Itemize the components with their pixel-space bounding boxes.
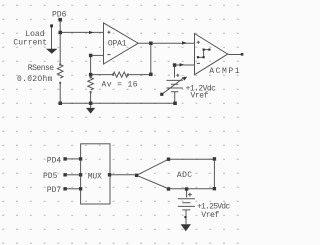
wire MUX output to ADC <box>110 174 137 176</box>
battery V2 +1.25Vdc <box>178 199 195 210</box>
pin PD5 at MUX <box>79 173 82 176</box>
svg-text:Vref: Vref <box>191 91 209 100</box>
ACMP1 plus sign <box>197 41 200 44</box>
variable source diagonal arrow line <box>162 77 185 94</box>
arrowhead diagonal variable arrow <box>182 77 187 81</box>
wire OPA1 output to ACMP1 <box>138 42 194 44</box>
svg-text:Current: Current <box>13 38 47 47</box>
svg-text:RSense: RSense <box>28 64 55 73</box>
junction inverting node <box>89 54 93 58</box>
svg-text:Vref: Vref <box>201 211 219 220</box>
wire Vref node to ACMP1 - input <box>175 64 195 66</box>
wire feedback to output <box>128 43 151 74</box>
OPA1 minus sign <box>107 54 110 56</box>
pin PD4 at MUX <box>79 157 82 160</box>
corner ADC top-right <box>213 157 216 160</box>
ADC pentagon <box>137 159 215 189</box>
svg-text:ACMP1: ACMP1 <box>209 67 241 76</box>
corner rail right <box>173 102 177 106</box>
svg-text:PD5: PD5 <box>43 172 58 181</box>
resistor R gain (Av) <box>88 77 94 90</box>
junction output node <box>149 42 153 46</box>
resistor R feedback <box>113 72 128 77</box>
OPA1 plus sign <box>107 31 110 34</box>
wire ADC to 1.25V battery <box>186 189 188 198</box>
wire ACMP1 output stub <box>228 53 242 55</box>
corner feedback right <box>149 73 153 77</box>
wire PD7 to MUX <box>65 188 81 190</box>
plus sign battery V1 <box>176 74 179 77</box>
resistor RSense <box>57 65 63 79</box>
junction node A (PD6/OPA1+) <box>59 31 63 35</box>
arrowhead on + input wire <box>89 31 94 34</box>
junction ADC Vref pin <box>185 187 188 190</box>
pin marks RSense <box>59 64 61 66</box>
wire battery to ground <box>185 210 187 224</box>
junction feedback left <box>89 73 93 77</box>
svg-text:MUX: MUX <box>88 172 102 181</box>
op-amp OPA1 <box>104 23 139 64</box>
ground stem top circuit <box>90 103 92 108</box>
MUX box <box>81 144 110 204</box>
plus sign battery V2 <box>188 193 192 197</box>
corner rail left <box>59 102 63 106</box>
svg-text:0.02Ohm: 0.02Ohm <box>17 75 53 84</box>
corner ADC bottom-right <box>213 187 216 190</box>
pin mark battery wire <box>184 216 186 218</box>
corner ADC bottom-left <box>167 187 170 190</box>
corner ADC top-left <box>167 158 170 161</box>
terminal PD4 <box>63 157 66 160</box>
pin marks R feedback <box>112 74 114 76</box>
terminal PD6 <box>58 18 62 22</box>
ground symbol bottom <box>181 224 191 231</box>
arrowhead on output wire <box>182 41 187 44</box>
wire OPA1 - input <box>91 54 104 56</box>
wire inverting node down <box>90 55 92 77</box>
arrowhead load current <box>46 49 57 54</box>
junction Vref node <box>173 63 177 67</box>
arrowhead on ACMP1 - wire <box>180 63 185 66</box>
ground symbol top circuit <box>86 108 95 114</box>
ACMP1 hysteresis glyph <box>198 50 209 58</box>
pin MUX output <box>108 173 111 176</box>
junction rail ground <box>89 102 93 106</box>
terminal diagonal arrow start <box>160 93 163 96</box>
wire Vref node down to battery <box>174 65 176 78</box>
ground rail wire <box>60 102 175 104</box>
pin PD7 at MUX <box>79 187 82 190</box>
wire PD6 vertical <box>59 20 61 65</box>
terminal load arrow top <box>50 24 53 27</box>
svg-text:Av = 16: Av = 16 <box>102 81 138 90</box>
ACMP1 minus sign <box>197 62 200 64</box>
svg-text:PD7: PD7 <box>47 186 62 195</box>
svg-text:PD6: PD6 <box>52 11 67 20</box>
load current arrow line <box>51 26 53 49</box>
wire rail up to 1.2V battery <box>174 92 176 103</box>
svg-text:ADC: ADC <box>177 171 193 180</box>
comparator ACMP1 <box>195 34 228 75</box>
terminal PD5 <box>63 173 66 176</box>
battery V1 +1.2Vdc <box>166 80 182 91</box>
terminal PD7 <box>63 187 66 190</box>
wire node to OPA1 + input <box>60 31 103 33</box>
wire R gain bottom <box>90 92 92 103</box>
wire RSense bottom <box>59 83 61 104</box>
wire feedback horizontal <box>91 74 113 76</box>
terminal ACMP1 output end <box>241 53 244 56</box>
svg-text:OPA1: OPA1 <box>108 40 127 49</box>
wire PD4 to MUX <box>65 158 81 160</box>
hysteresis glyph end squares <box>197 56 199 58</box>
node ADC apex <box>135 174 138 177</box>
pin marks R gain <box>90 76 92 78</box>
svg-text:PD4: PD4 <box>47 156 62 165</box>
wire PD5 to MUX <box>65 174 81 176</box>
